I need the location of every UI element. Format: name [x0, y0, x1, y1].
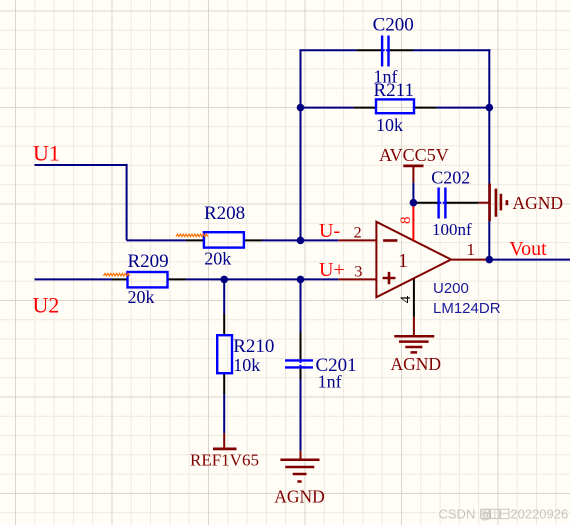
power net AVCC5V label	[379, 145, 449, 165]
svg-text:U1: U1	[33, 141, 60, 166]
svg-text:8: 8	[398, 217, 414, 225]
pin C202.1	[413, 202, 438, 204]
svg-text:U2: U2	[33, 293, 60, 318]
wire U2 to R209	[35, 278, 113, 280]
wire feedback right vertical	[488, 49, 490, 259]
svg-text:R211: R211	[374, 80, 414, 101]
part number LM124DR	[433, 300, 501, 317]
ground AGND at op-amp	[394, 317, 434, 353]
pin R209.1	[112, 278, 128, 280]
pin C202.2	[445, 202, 478, 204]
junction node U+	[297, 276, 305, 284]
wire Vout	[489, 259, 570, 261]
resistor R211	[376, 99, 414, 113]
pin C200.1	[357, 49, 383, 51]
value 20k of R209	[128, 287, 155, 307]
junction node R211 right	[486, 104, 494, 112]
value 1nf of C201	[318, 372, 342, 392]
net label U+	[319, 259, 345, 281]
wire R211 right to node	[437, 107, 490, 109]
pin U200.2	[338, 239, 376, 241]
designator C201	[316, 355, 357, 376]
designator R210	[233, 336, 274, 357]
op-amp minus marking	[383, 239, 397, 242]
svg-text:1nf: 1nf	[318, 372, 342, 392]
pin R209.2	[168, 278, 187, 280]
svg-text:AGND: AGND	[274, 487, 325, 507]
op-amp U200 triangle	[376, 222, 451, 297]
pin R211.2	[414, 107, 437, 109]
designator C202	[431, 167, 470, 187]
pin C201.2	[300, 368, 302, 380]
svg-text:LM124DR: LM124DR	[433, 300, 501, 317]
junction node U-	[297, 237, 305, 245]
no-ERC squiggle at R209	[104, 273, 130, 275]
power net REF1V65 label	[190, 451, 259, 470]
svg-text:20k: 20k	[204, 249, 231, 269]
svg-text:R208: R208	[204, 203, 245, 224]
capacitor C202	[439, 188, 446, 219]
designator U200	[433, 280, 469, 297]
svg-text:2: 2	[354, 225, 362, 242]
pin C200.2	[388, 49, 413, 51]
wire U1 horizontal	[35, 164, 127, 166]
svg-text:C202: C202	[431, 167, 470, 187]
svg-text:10k: 10k	[233, 355, 260, 375]
wire top left to C200	[299, 49, 356, 51]
pin R210.1	[223, 314, 225, 335]
svg-text:1: 1	[467, 240, 476, 259]
watermark	[439, 506, 569, 521]
resistor R209	[128, 272, 168, 287]
net label Vout	[509, 238, 547, 260]
pin number 8 rotated	[398, 217, 414, 225]
pin C201.1	[300, 332, 302, 360]
pin U200.4	[413, 278, 415, 317]
wire AVCC5V to node	[412, 183, 414, 203]
designator C200	[373, 15, 414, 36]
svg-text:R209: R209	[128, 251, 169, 272]
value 100nf of C202	[432, 220, 472, 239]
pin R210.2	[223, 373, 225, 394]
svg-text:20220926: 20220926	[510, 506, 568, 521]
pin number 2	[354, 225, 362, 242]
wire U1 to R208	[127, 239, 186, 241]
svg-text:20k: 20k	[128, 287, 155, 307]
net label U-	[319, 220, 340, 242]
svg-text:REF1V65: REF1V65	[190, 451, 259, 470]
wire R208 to U- node	[262, 239, 338, 241]
pin U200.1 output	[451, 259, 489, 261]
pin number 4 rotated	[398, 295, 414, 303]
svg-text:4: 4	[398, 295, 414, 303]
pin R208.2	[244, 239, 262, 241]
value 10k of R210	[233, 355, 260, 375]
svg-text:AVCC5V: AVCC5V	[379, 145, 449, 165]
svg-text:3: 3	[354, 263, 362, 280]
svg-text:1: 1	[398, 250, 408, 272]
wire U1 vertical	[126, 164, 128, 241]
svg-text:AGND: AGND	[513, 193, 564, 213]
op-amp plus marking	[383, 272, 396, 284]
earth ground AGND at C202	[479, 184, 507, 222]
wire R210 to REF1V65	[223, 394, 225, 433]
pin R208.1	[186, 239, 204, 241]
ground AGND at C201	[280, 451, 319, 482]
power port AVCC5V	[403, 166, 423, 183]
wire C200 to top right	[413, 49, 490, 51]
net label U2	[33, 293, 60, 318]
svg-text:100nf: 100nf	[432, 220, 472, 239]
svg-text:U-: U-	[319, 220, 340, 242]
svg-text:10k: 10k	[376, 115, 403, 135]
capacitor C200	[382, 36, 388, 67]
svg-text:C200: C200	[373, 15, 414, 36]
designator R208	[204, 203, 245, 224]
power net AGND label C201	[274, 487, 325, 507]
pin number 1	[467, 240, 476, 259]
power port REF1V65	[213, 433, 237, 449]
pin R211.1	[354, 107, 376, 109]
capacitor C201	[285, 360, 313, 367]
net label U1	[33, 141, 60, 166]
designator R209	[128, 251, 169, 272]
pin U200.3	[338, 278, 376, 280]
svg-text:U+: U+	[319, 259, 345, 281]
wire feedback left vertical	[300, 50, 302, 240]
svg-text:AGND: AGND	[391, 354, 442, 374]
pin name 1 inside op-amp	[398, 250, 408, 272]
wire node to C201	[300, 279, 302, 332]
wire C201 to ground	[300, 379, 302, 451]
power net AGND label right	[513, 193, 564, 213]
resistor R208	[204, 232, 244, 247]
value 20k of R208	[204, 249, 231, 269]
power net AGND label op-amp	[391, 354, 442, 374]
junction node Vout	[486, 256, 494, 264]
designator R211	[374, 80, 414, 101]
value 10k of R211	[376, 115, 403, 135]
no-ERC squiggle at R208	[176, 234, 208, 236]
wire node to R210	[223, 279, 225, 314]
junction node R211 left	[297, 104, 305, 112]
pin number 3	[354, 263, 362, 280]
wire R209 to U+ node	[186, 278, 338, 280]
svg-text:U200: U200	[433, 280, 469, 297]
value 1nf of C200	[374, 66, 398, 86]
junction node R210	[220, 276, 228, 284]
resistor R210	[217, 335, 232, 373]
pin U200.8 power	[412, 203, 414, 241]
wire node to R211 left	[301, 107, 354, 109]
junction node AVCC	[410, 199, 418, 207]
svg-text:Vout: Vout	[509, 238, 547, 260]
